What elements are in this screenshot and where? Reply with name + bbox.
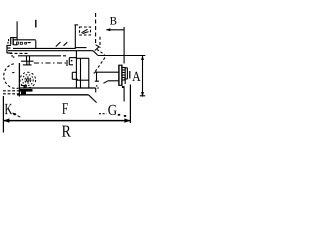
stud vertical above body — [74, 25, 76, 49]
bracket box left — [71, 72, 73, 79]
pulley nut bottom cap — [124, 78, 127, 80]
rear lug cross line — [21, 60, 34, 62]
rear lug left vertical — [18, 63, 20, 97]
body top line 2 — [8, 50, 93, 52]
rear step vertical b — [12, 38, 14, 45]
B dimension line — [107, 29, 125, 31]
rear dash row — [10, 52, 28, 54]
diagonal tick 1 — [56, 42, 61, 47]
pulley nut top cap — [124, 67, 127, 69]
front face dashed vertical — [99, 37, 101, 48]
label K — [5, 104, 13, 114]
A top reference line — [98, 55, 145, 57]
rear connector vertical — [6, 45, 8, 53]
terminal block top line — [13, 39, 35, 41]
rear connector dashlet — [8, 39, 10, 41]
A top arrow — [141, 56, 144, 61]
nose dot 1 — [96, 85, 97, 86]
foot bar left small lines — [21, 85, 27, 87]
pulley groove line 6 — [122, 79, 126, 81]
regulator box dot — [71, 60, 73, 61]
rear connector pin 3 — [7, 52, 12, 54]
G leader dot 2 — [124, 115, 126, 117]
A dimension line — [142, 56, 144, 97]
rear face vertical — [16, 21, 18, 40]
shaft bottom segment left — [95, 80, 99, 82]
foot right diagonal — [89, 95, 97, 103]
hole centerline tick upper — [35, 20, 37, 28]
right extension line — [129, 85, 131, 124]
clock mark dashed box — [80, 27, 91, 35]
pulley groove line 4 — [122, 74, 126, 76]
lug bore inner circle — [25, 77, 31, 83]
K leader tick — [14, 114, 22, 118]
hole centerline tick lower — [35, 40, 37, 49]
left extension line — [2, 96, 4, 133]
foot dark square — [21, 92, 26, 95]
rear connector pin 2 — [7, 47, 11, 49]
front bracket joint vertical 1 — [75, 51, 77, 88]
pulley centerline top — [123, 27, 125, 64]
pulley groove line 1 — [122, 67, 126, 69]
front bracket joint vertical 3 — [88, 58, 90, 88]
G leader dashes — [99, 113, 107, 115]
nose diagonal — [103, 81, 108, 84]
label G — [108, 105, 116, 115]
shaft bottom line right — [108, 80, 119, 82]
centerline tick — [66, 60, 68, 66]
rear housing bottom line — [18, 55, 58, 57]
rear lug bolt shank left — [26, 61, 28, 65]
rear housing bottom dashes — [58, 55, 66, 57]
rear step horizontal — [10, 37, 17, 39]
foot right end vertical — [95, 88, 97, 92]
A bottom arrow — [141, 92, 144, 97]
pulley nut right vertical — [126, 68, 128, 79]
pulley flange bottom cap — [119, 84, 122, 86]
pulley groove line 5 — [122, 77, 126, 79]
terminal dot 2 — [20, 42, 22, 44]
pulley rear flange left vertical — [118, 65, 120, 86]
bracket box bottom — [72, 78, 78, 80]
lug hidden dashed arc — [4, 64, 19, 89]
front bracket shelf line — [76, 57, 89, 59]
nose dot 2 — [97, 87, 98, 88]
pulley centerline bottom — [123, 86, 125, 101]
rear lug bolt head left — [26, 56, 28, 61]
left hidden dashed line upper — [3, 90, 19, 92]
clock squiggle stroke 1 — [82, 29, 88, 33]
pulley groove line 3 — [122, 72, 126, 74]
bracket inner bottom line — [76, 79, 88, 81]
rear dot a — [11, 55, 13, 56]
lug bore outer dashed circle — [20, 72, 36, 88]
terminal dot 3 — [25, 42, 27, 44]
left hidden dashed line lower — [3, 93, 19, 95]
top chamfer diagonal — [93, 51, 98, 56]
rear lug bolt head right — [29, 56, 31, 61]
bottom dimension line — [3, 120, 130, 122]
zigzag near dashed vertical — [95, 45, 99, 51]
A bottom tick — [140, 95, 145, 97]
shaft shoulder dot — [94, 72, 95, 73]
pulley flange top cap — [119, 64, 122, 66]
pulley front flange vertical — [124, 67, 126, 84]
foot bar bottom line — [17, 94, 89, 96]
bottom right arrow — [124, 118, 130, 122]
pulley groove line 2 — [122, 69, 126, 71]
regulator box left — [68, 58, 70, 65]
label R — [62, 126, 71, 137]
terminal block bottom line — [13, 44, 17, 46]
shaft tip tick — [129, 71, 131, 79]
shaft shoulder vertical — [96, 72, 98, 82]
foot left notch — [24, 86, 27, 88]
clock squiggle stroke 2 — [83, 32, 89, 34]
lug hidden dash — [12, 72, 15, 74]
terminal dash — [28, 42, 31, 44]
label B — [110, 17, 116, 25]
G leader dot 1 — [118, 114, 120, 116]
front bracket joint vertical 2 — [80, 58, 82, 88]
shelf line upper — [75, 47, 86, 49]
lug dark bar — [20, 89, 33, 92]
rear connector dot — [7, 42, 8, 43]
bottom left arrow — [3, 118, 9, 122]
rear dot b — [13, 56, 15, 57]
rear lug bolt shank right — [28, 61, 30, 65]
regulator box bottom — [69, 64, 73, 66]
rear step vertical a — [10, 38, 12, 45]
lug bore middle dotted circle — [22, 75, 33, 86]
B left arrow — [106, 28, 111, 31]
pulley hub bottom step — [122, 86, 124, 88]
pulley rear flange right vertical — [121, 65, 123, 86]
diagonal tick 2 — [64, 42, 68, 46]
dash-dot centerline mid body — [34, 62, 66, 64]
label F — [62, 103, 68, 114]
bracket box top — [72, 71, 76, 73]
shaft top line — [95, 71, 119, 73]
K leader arrowhead — [12, 113, 16, 116]
B reference dashed vertical — [95, 13, 97, 45]
foot bar top line — [19, 87, 95, 89]
rear lug cap line — [23, 64, 32, 66]
terminal dot 1 — [17, 42, 19, 44]
label A — [132, 72, 140, 81]
body top line 1 — [13, 47, 75, 49]
rear connector pin 1 — [7, 44, 11, 46]
lug bore center arc — [27, 79, 30, 82]
hidden diagonal dashes — [95, 58, 105, 72]
regulator box top — [69, 57, 76, 59]
chamfer parallel dashes — [97, 50, 105, 55]
stud top cap — [74, 24, 78, 26]
